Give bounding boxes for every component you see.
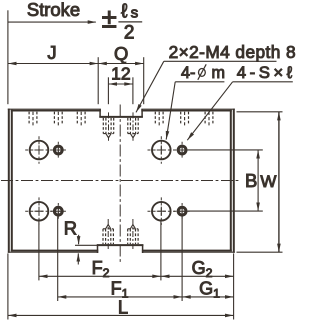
svg-text:ℓ: ℓ <box>121 1 128 23</box>
svg-text:s: s <box>131 5 139 22</box>
svg-text:4-: 4- <box>181 64 195 82</box>
svg-text:m: m <box>212 64 225 82</box>
svg-text:R: R <box>64 217 77 238</box>
svg-text:L: L <box>118 296 128 317</box>
svg-text:12: 12 <box>111 64 131 84</box>
svg-text:Q: Q <box>114 43 128 64</box>
svg-text:J: J <box>47 42 56 63</box>
svg-text:2: 2 <box>124 23 135 44</box>
svg-text:4-S×ℓ: 4-S×ℓ <box>237 63 296 82</box>
svg-text:Stroke: Stroke <box>27 0 80 20</box>
svg-text:±: ± <box>102 3 117 34</box>
svg-text:2×2-M4 depth 8: 2×2-M4 depth 8 <box>169 42 296 62</box>
svg-text:W: W <box>260 172 276 191</box>
svg-text:B: B <box>245 170 257 191</box>
